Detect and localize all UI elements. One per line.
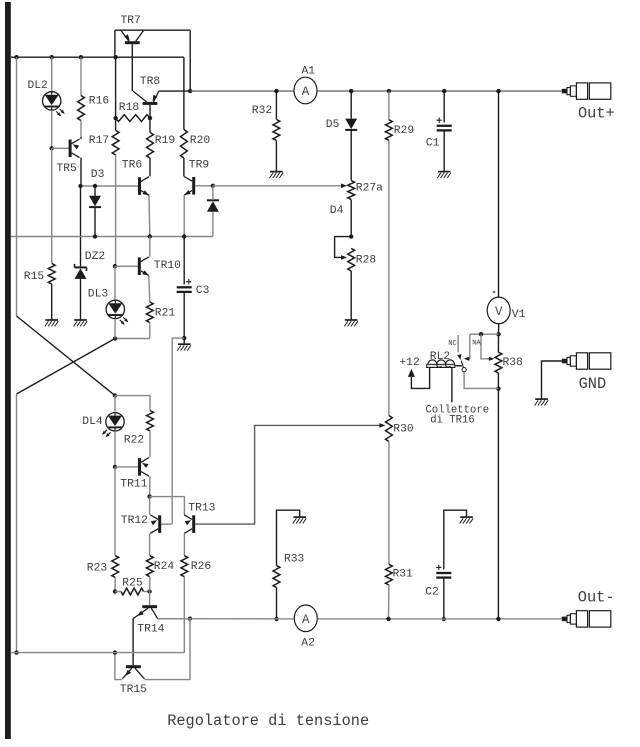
transistor TR8: [133, 91, 159, 105]
transistor TR5: [69, 139, 80, 158]
resistor R24: [146, 556, 153, 577]
wire: [115, 653, 123, 680]
node junction: [148, 116, 152, 120]
wire: [81, 185, 139, 187]
wire: [498, 324, 500, 335]
node junction: [113, 589, 117, 593]
node junction: [188, 617, 192, 621]
wire: [80, 57, 82, 95]
svg-text:A1: A1: [302, 66, 316, 78]
svg-text:R30: R30: [393, 424, 414, 436]
relay pivot: [462, 368, 466, 372]
label NA: [472, 339, 481, 347]
node junction: [188, 89, 192, 93]
wire: [114, 319, 116, 339]
svg-text:NC: NC: [448, 340, 456, 348]
node junction: [496, 617, 500, 621]
svg-text:TR8: TR8: [140, 76, 161, 88]
wire: [212, 186, 214, 201]
wire: [467, 334, 470, 359]
node junction: [113, 650, 117, 654]
wire: [115, 118, 117, 130]
wire: [183, 158, 185, 176]
wire: [149, 476, 151, 496]
wire: [114, 467, 116, 556]
svg-text:D5: D5: [326, 119, 340, 131]
node junction: [496, 332, 500, 336]
wire: [51, 148, 53, 263]
wire: [11, 236, 213, 238]
node junction: [182, 234, 186, 238]
transistor TR15: [123, 665, 145, 679]
svg-text:C1: C1: [426, 138, 440, 150]
wire: [183, 338, 185, 344]
wire: [16, 57, 18, 316]
svg-text:TR13: TR13: [188, 503, 215, 515]
label R25: [122, 577, 143, 589]
wire: [115, 57, 117, 118]
label TR7: [121, 15, 141, 27]
ground: [177, 344, 191, 350]
wire: [115, 466, 138, 468]
resistor R22: [147, 411, 154, 432]
node junction: [442, 89, 446, 93]
label R19: [155, 135, 175, 147]
node junction: [50, 146, 54, 150]
node junction: [93, 234, 97, 238]
transistor TR10: [138, 257, 149, 276]
wire: [80, 137, 82, 139]
label TR9: [189, 160, 209, 172]
label R30: [393, 424, 414, 436]
title text: [167, 712, 369, 730]
ground: [45, 320, 59, 326]
wire: [149, 592, 151, 606]
label TR13: [188, 503, 215, 515]
label R22: [124, 434, 144, 446]
capacitor C2: [436, 565, 451, 578]
node junction: [386, 617, 390, 621]
node junction: [349, 89, 353, 93]
svg-text:R19: R19: [155, 135, 175, 147]
relay contact arrow NC: [457, 354, 461, 360]
node junction: [113, 264, 117, 268]
wire: [131, 44, 133, 91]
wire: [190, 90, 294, 92]
node junction: [182, 336, 186, 340]
label D5: [326, 119, 340, 131]
wire: [149, 105, 151, 118]
wire: [455, 365, 462, 367]
svg-text:R21: R21: [155, 308, 176, 320]
wire: [11, 56, 184, 58]
node junction: [78, 184, 82, 188]
wire: [149, 237, 151, 257]
svg-text:DL3: DL3: [88, 288, 109, 300]
svg-text:RL2: RL2: [430, 351, 450, 363]
label R33: [284, 554, 305, 566]
wire: [350, 200, 352, 237]
potentiometer wiper arrow R28: [341, 255, 347, 260]
wire: [80, 186, 82, 266]
resistor R21: [146, 302, 153, 323]
transistor TR9: [184, 177, 195, 196]
svg-text:+12: +12: [399, 357, 419, 369]
node junction: [147, 589, 151, 593]
svg-text:R18: R18: [119, 102, 140, 114]
wire: [183, 57, 185, 129]
ground: [293, 517, 307, 523]
resistor R29: [386, 120, 393, 141]
node junction: [349, 234, 353, 238]
potentiometer wiper arrow R38: [489, 357, 495, 361]
diode D5: [345, 119, 357, 130]
wire: [115, 591, 121, 593]
ground: [460, 517, 474, 523]
svg-text:R15: R15: [24, 271, 45, 283]
zener DZ2: [75, 264, 87, 279]
LED DL4: [102, 413, 124, 438]
label R18: [119, 102, 140, 114]
wire: [388, 140, 390, 415]
wire: [195, 185, 213, 187]
node junction: [50, 55, 54, 59]
wire: [80, 279, 82, 320]
label DL2: [28, 80, 48, 92]
wire: [388, 91, 390, 120]
power rail bar (input bus): [5, 2, 11, 739]
node junction: [14, 650, 18, 654]
wire: [318, 618, 562, 620]
node junction: [274, 89, 278, 93]
label TR15: [120, 684, 147, 696]
label R17: [89, 135, 109, 147]
svg-text:R25: R25: [122, 577, 143, 589]
ammeter A2: [294, 605, 317, 632]
wire: [114, 266, 116, 300]
svg-text:TR14: TR14: [137, 624, 164, 636]
wire: [115, 29, 190, 31]
node junction: [147, 494, 151, 498]
node junction: [274, 617, 278, 621]
wire: [183, 293, 185, 338]
transistor TR13: [184, 515, 195, 534]
svg-text:DL2: DL2: [28, 80, 48, 92]
svg-text:Out+: Out+: [578, 105, 615, 123]
diode D3: [89, 196, 101, 207]
binding post Out-: [562, 611, 611, 627]
svg-text:R32: R32: [252, 105, 272, 117]
wire: [213, 185, 341, 187]
node junction: [14, 55, 18, 59]
wire: [275, 91, 277, 119]
resistor R18: [116, 115, 150, 122]
label A2: [301, 637, 315, 649]
label DL4: [82, 416, 103, 428]
wire: [212, 212, 214, 237]
wire: [172, 338, 184, 524]
svg-text:R24: R24: [154, 561, 175, 573]
svg-text:R29: R29: [394, 125, 414, 137]
node junction: [496, 89, 500, 93]
transistor TR11: [138, 458, 149, 477]
label Out-: [578, 588, 615, 606]
svg-text:NA: NA: [472, 339, 481, 347]
svg-text:R26: R26: [191, 561, 212, 573]
potentiometer R27a: [348, 181, 355, 200]
svg-text:R28: R28: [356, 255, 377, 267]
wire: [542, 361, 562, 399]
wire: [16, 394, 18, 653]
wire: [443, 132, 445, 172]
svg-text:C2: C2: [425, 587, 439, 599]
node junction: [113, 116, 117, 120]
wire: [115, 155, 117, 266]
wire: [350, 130, 352, 180]
wire: [115, 265, 138, 267]
wire: [52, 147, 69, 149]
label R15: [24, 271, 45, 283]
label R27a: [356, 183, 383, 195]
svg-text:D4: D4: [330, 205, 344, 217]
svg-text:R38: R38: [503, 357, 524, 369]
label DL3: [88, 288, 109, 300]
svg-text:R22: R22: [124, 434, 144, 446]
svg-text:C3: C3: [196, 285, 210, 297]
svg-text:TR7: TR7: [121, 15, 141, 27]
node junction: [113, 55, 117, 59]
binding post Out+: [562, 83, 611, 99]
node junction: [113, 393, 117, 397]
wire: [150, 497, 185, 515]
wire: [388, 585, 390, 619]
wire: [144, 619, 190, 680]
svg-text:A: A: [302, 613, 310, 627]
wire: [335, 237, 352, 258]
svg-text:D3: D3: [91, 169, 105, 181]
wire: [80, 158, 82, 186]
wire: [80, 121, 82, 138]
transistor TR7: [121, 30, 144, 44]
wire: [451, 368, 453, 403]
node junction: [496, 387, 500, 391]
wire: [51, 284, 53, 320]
wire: [149, 497, 151, 515]
label R16: [89, 95, 110, 107]
node junction: [148, 234, 152, 238]
svg-text:V: V: [495, 305, 503, 319]
resistor R23: [112, 556, 119, 578]
resistor R25: [121, 588, 144, 595]
relay lever: [461, 361, 463, 368]
ground: [535, 399, 549, 405]
wire: [114, 30, 116, 57]
wire: [158, 618, 294, 620]
label TR6: [122, 160, 143, 172]
wire: [189, 30, 191, 91]
wire: [144, 591, 150, 593]
wire: [411, 368, 429, 389]
label D3: [91, 169, 105, 181]
wire: [277, 510, 300, 565]
wire: [115, 396, 150, 411]
wire: [183, 534, 185, 556]
wire: [161, 523, 172, 525]
binding post GND: [562, 353, 611, 369]
svg-text:R16: R16: [89, 95, 110, 107]
svg-text:TR10: TR10: [154, 260, 181, 272]
wire: [497, 389, 499, 619]
label C1: [426, 138, 440, 150]
wire: [195, 425, 381, 524]
label TR12: [121, 515, 148, 527]
wire: [350, 91, 352, 119]
wire: [183, 195, 185, 236]
svg-text:V1: V1: [512, 309, 526, 321]
wire: [17, 316, 116, 396]
svg-text:GND: GND: [579, 375, 607, 393]
svg-text:R20: R20: [190, 135, 211, 147]
svg-text:R23: R23: [87, 563, 108, 575]
wire: [17, 339, 116, 395]
svg-text:DZ2: DZ2: [85, 251, 105, 263]
svg-text:R33: R33: [284, 554, 305, 566]
resistor R32: [273, 120, 280, 141]
potentiometer wiper arrow R27a: [341, 184, 347, 189]
label R24: [154, 561, 175, 573]
label R32: [252, 105, 272, 117]
node junction: [79, 55, 83, 59]
voltmeter V1: [487, 297, 510, 324]
label A1: [302, 66, 316, 78]
label NC: [448, 340, 456, 348]
svg-text:TR15: TR15: [120, 684, 147, 696]
svg-text:di TR16: di TR16: [430, 414, 475, 426]
wire: [443, 578, 445, 619]
ground: [270, 172, 284, 178]
label R31: [393, 568, 414, 580]
label R38: [503, 357, 524, 369]
wire: [114, 431, 116, 467]
svg-text:Regolatore di tensione: Regolatore di tensione: [167, 712, 369, 730]
svg-text:R31: R31: [393, 568, 414, 580]
wire: [148, 195, 151, 236]
label RL2: [430, 351, 450, 363]
svg-text:TR12: TR12: [121, 515, 148, 527]
wire: [183, 577, 185, 653]
wire: [149, 323, 151, 339]
label Out+: [578, 105, 615, 123]
wire: [149, 158, 151, 176]
LED DL3: [106, 300, 128, 325]
node junction: [113, 465, 117, 469]
node junction: [211, 184, 215, 188]
wire: [444, 510, 467, 569]
wire: [470, 333, 499, 335]
ammeter A1: [294, 77, 317, 104]
marker asterisk V1: [493, 291, 496, 294]
svg-text:A: A: [302, 85, 310, 99]
label TR5: [57, 163, 78, 175]
label TR14: [137, 624, 164, 636]
svg-text:TR6: TR6: [122, 160, 143, 172]
wire: [149, 577, 151, 592]
wire: [275, 141, 277, 172]
ground: [344, 320, 358, 326]
capacitor C3: [177, 279, 192, 292]
resistor R31: [386, 564, 393, 585]
label TR10: [154, 260, 181, 272]
label R29: [394, 125, 414, 137]
wire: [149, 118, 151, 132]
relay coil RL2: [427, 360, 455, 368]
wire: [132, 619, 134, 666]
label +12: [399, 357, 419, 369]
label R26: [191, 561, 212, 573]
transistor TR6: [138, 177, 149, 196]
resistor R33: [273, 566, 280, 588]
transistor TR14: [133, 605, 158, 619]
wire: [51, 110, 53, 148]
capacitor C1: [437, 118, 452, 131]
svg-text:Out-: Out-: [578, 588, 615, 606]
resistor R26: [181, 556, 188, 577]
svg-text:TR11: TR11: [120, 479, 147, 491]
wire: [443, 91, 445, 122]
supply arrow +12: [408, 369, 415, 377]
node junction: [113, 336, 117, 340]
wire: [276, 588, 278, 619]
wire: [350, 271, 352, 320]
wire (NC contact): [457, 335, 459, 352]
ground: [74, 320, 88, 326]
wire: [183, 237, 185, 285]
node junction: [387, 89, 391, 93]
label R28: [356, 255, 377, 267]
node junction: [479, 332, 483, 336]
wire: [158, 618, 190, 620]
wire: [11, 652, 184, 654]
label C3: [196, 285, 210, 297]
wire: [464, 372, 498, 389]
wire: [51, 57, 53, 91]
wire: [159, 90, 190, 92]
wire: [317, 90, 562, 92]
svg-text:R27a: R27a: [356, 183, 383, 195]
label R20: [190, 135, 211, 147]
label TR11: [120, 479, 147, 491]
label D4: [330, 205, 344, 217]
wire: [497, 373, 499, 389]
potentiometer R30: [386, 416, 393, 442]
label DZ2: [85, 251, 105, 263]
svg-text:TR5: TR5: [57, 163, 78, 175]
wire: [497, 334, 499, 352]
wire: [94, 208, 96, 237]
ground: [437, 172, 451, 178]
wire: [94, 186, 96, 196]
transistor TR12: [150, 515, 161, 534]
wire: [114, 396, 116, 413]
wire: [388, 442, 390, 565]
svg-text:TR9: TR9: [189, 160, 209, 172]
label R23: [87, 563, 108, 575]
svg-text:A2: A2: [301, 637, 315, 649]
label Collettore: [426, 405, 490, 417]
label C2: [425, 587, 439, 599]
resistor R16: [78, 96, 85, 121]
wire: [498, 91, 500, 297]
